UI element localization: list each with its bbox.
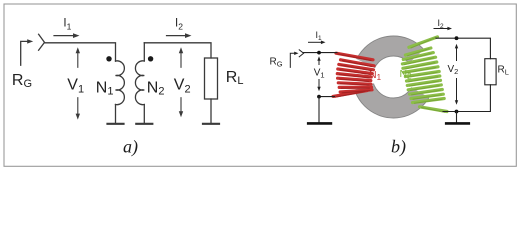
source port arrow (generator) <box>21 41 29 65</box>
wire: top secondary <box>144 43 211 58</box>
polarity dot N2 <box>148 56 153 61</box>
svg-text:b): b) <box>391 137 406 158</box>
wire: top primary <box>45 43 116 61</box>
voltage V1 arrows <box>77 52 79 67</box>
b: voltage V1 arrows <box>318 60 320 65</box>
toroid core <box>363 46 425 108</box>
b: source port arrow <box>290 53 295 67</box>
b: wire bottom right <box>443 85 490 112</box>
winding N2 (green turns) <box>402 37 447 112</box>
b: node (bottom left) <box>317 95 321 99</box>
b: wire bottom left <box>319 96 335 98</box>
b: node (top right) <box>455 36 459 40</box>
b: wire top right <box>436 38 490 59</box>
ground (N2) <box>136 123 152 125</box>
svg-text:a): a) <box>123 137 138 158</box>
b: ground left <box>318 97 320 122</box>
b: node (top left) <box>317 51 321 55</box>
b: current I2 arrow <box>434 28 448 30</box>
b: resistor RL <box>485 59 496 85</box>
b: voltage V2 arrows <box>456 47 458 60</box>
inductor N1 <box>116 61 125 105</box>
voltage V2 arrows <box>180 52 182 67</box>
current I2 arrow <box>167 35 187 37</box>
ground (N1) <box>108 123 124 125</box>
b: ground right <box>456 112 458 123</box>
b: node (bottom right) <box>455 110 459 114</box>
polarity dot N1 <box>106 56 111 61</box>
input wedge <box>39 34 45 50</box>
b: current I1 arrow <box>309 41 322 43</box>
inductor N2 <box>135 61 144 105</box>
b: wire top left <box>304 52 337 54</box>
border frame <box>4 4 516 166</box>
ground (RL) <box>203 123 219 125</box>
winding backing (hides core behind turns) <box>351 58 377 90</box>
resistor RL <box>205 58 218 99</box>
winding N1 (red turns) <box>333 53 374 96</box>
b: input wedge <box>299 50 303 57</box>
current I1 arrow <box>54 35 74 37</box>
